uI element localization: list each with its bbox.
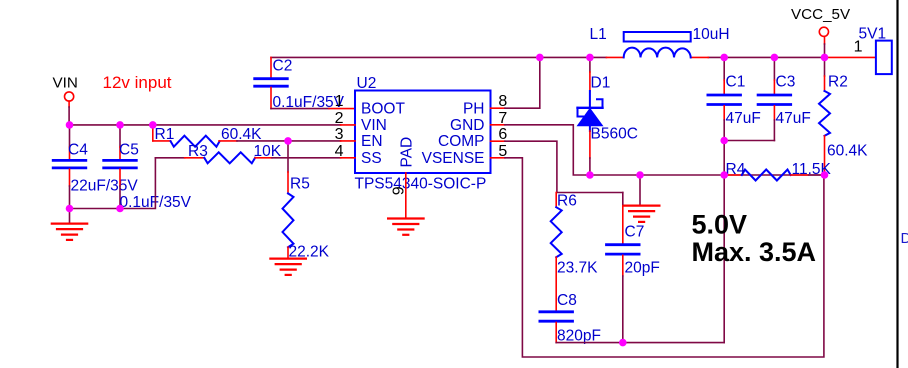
svg-text:EN: EN — [361, 133, 383, 150]
svg-text:C3: C3 — [776, 74, 796, 91]
svg-text:VSENSE: VSENSE — [422, 150, 485, 167]
svg-text:R3: R3 — [188, 143, 208, 160]
node C5 bottom — [116, 205, 124, 213]
node VIN/C4 — [66, 121, 74, 129]
wire EN node vertical to R5 — [287, 141, 289, 172]
node EN — [284, 137, 292, 145]
wire VIN rail to U2 pin2 — [69, 124, 341, 126]
wire red lead L1 left — [606, 56, 623, 58]
capacitor C2 — [270, 57, 272, 77]
svg-text:C1: C1 — [726, 74, 746, 91]
junction nodes — [66, 54, 829, 347]
ground below U2 PAD — [388, 219, 424, 235]
wire C2 to BOOT pin — [271, 108, 329, 110]
svg-text:C7: C7 — [625, 224, 645, 241]
wire input gnd bus — [70, 158, 156, 209]
capacitor C4 — [69, 125, 71, 147]
svg-text:C5: C5 — [119, 142, 139, 159]
wire compensation gnd line — [556, 342, 724, 344]
capacitor C5 — [119, 125, 121, 147]
pin PH stub — [491, 107, 505, 109]
connector 5V1 — [876, 41, 892, 75]
svg-text:C8: C8 — [557, 292, 577, 309]
wire red lead L1 right — [691, 56, 709, 58]
resistor R2 — [824, 57, 826, 76]
svg-text:SS: SS — [361, 150, 382, 167]
svg-text:10K: 10K — [254, 143, 282, 160]
node R1 tap — [149, 121, 157, 129]
svg-text:9: 9 — [391, 186, 408, 195]
svg-text:5V1: 5V1 — [859, 26, 887, 43]
node D1 anode — [586, 171, 594, 179]
node D1 top — [586, 54, 594, 62]
pin EN stub — [341, 140, 355, 142]
ground below R5 — [270, 259, 306, 275]
svg-text:5.0V: 5.0V — [692, 210, 748, 240]
pin VIN stub — [341, 124, 355, 126]
wire top rail VCC net L1 to R2 — [708, 56, 824, 58]
resistor R4 — [724, 174, 742, 176]
svg-text:PAD: PAD — [399, 137, 416, 168]
svg-text:20pF: 20pF — [625, 260, 660, 277]
svg-text:C4: C4 — [68, 142, 88, 159]
node FB divider — [821, 171, 829, 179]
node C3 top — [771, 54, 779, 62]
pin GND stub — [491, 124, 505, 126]
wire C1 C3 bottoms — [724, 140, 774, 142]
svg-text:1: 1 — [854, 39, 863, 56]
svg-text:L1: L1 — [590, 26, 607, 43]
node gnd branch — [636, 171, 644, 179]
svg-text:COMP: COMP — [438, 133, 485, 150]
sheet border right edge — [896, 0, 898, 368]
wire red 5V1 connector feed — [825, 56, 876, 58]
node C1 top — [720, 54, 728, 62]
wire top rail PH net C2 to L1 — [271, 56, 606, 58]
svg-text:12v input: 12v input — [103, 73, 172, 92]
capacitor C8 — [540, 310, 573, 313]
svg-text:60.4K: 60.4K — [827, 143, 868, 160]
resistor R5 — [287, 172, 289, 193]
ground on power gnd rail — [639, 175, 641, 206]
wire PH to top rail — [505, 57, 540, 108]
svg-text:R4: R4 — [726, 161, 746, 178]
svg-text:D: D — [901, 230, 908, 247]
svg-text:R1: R1 — [155, 126, 175, 143]
resistor R1 — [152, 125, 154, 141]
node C1 bottom — [720, 137, 728, 145]
svg-text:PH: PH — [463, 100, 485, 117]
svg-text:BOOT: BOOT — [361, 100, 405, 117]
svg-text:22uF/35V: 22uF/35V — [71, 178, 139, 195]
wire C1 bottom to gnd rail and down to bottom gnd line — [723, 141, 725, 343]
VIN terminal — [65, 92, 74, 101]
VCC_5V terminal — [824, 36, 826, 44]
node C7 bottom — [619, 339, 627, 347]
svg-text:TPS54340-SOIC-P: TPS54340-SOIC-P — [355, 176, 487, 193]
svg-text:U2: U2 — [357, 75, 377, 92]
svg-text:Max. 3.5A: Max. 3.5A — [692, 237, 817, 267]
svg-text:C2: C2 — [273, 58, 293, 75]
diode D1 B560C — [589, 57, 591, 72]
wire GND pin to ground rail — [505, 125, 825, 175]
svg-text:R2: R2 — [828, 74, 848, 91]
svg-text:47uF: 47uF — [776, 110, 811, 127]
inductor L1 — [624, 32, 691, 42]
svg-text:VCC_5V: VCC_5V — [791, 6, 851, 23]
pin VSENSE stub — [491, 157, 505, 159]
resistor R3 — [155, 157, 184, 159]
svg-text:R5: R5 — [290, 176, 310, 193]
capacitor C1 — [723, 57, 725, 80]
node C4 bottom — [66, 205, 74, 213]
svg-text:R6: R6 — [557, 193, 577, 210]
svg-text:GND: GND — [450, 117, 484, 134]
node C5 top — [116, 121, 124, 129]
svg-text:B560C: B560C — [591, 126, 638, 143]
svg-text:1: 1 — [335, 93, 344, 110]
capacitor C7 — [622, 193, 624, 206]
pin COMP stub — [491, 140, 505, 142]
svg-text:D1: D1 — [591, 75, 611, 92]
svg-text:47uF: 47uF — [726, 110, 761, 127]
wire COMP to R6/C7 — [505, 141, 623, 192]
node VCC — [821, 54, 829, 62]
svg-text:10uH: 10uH — [693, 26, 730, 43]
capacitor C3 — [773, 57, 775, 80]
wire VSENSE loop — [505, 158, 824, 357]
svg-text:VIN: VIN — [361, 117, 387, 134]
op-amp U2 TPS54340 box — [355, 91, 491, 174]
svg-text:60.4K: 60.4K — [221, 126, 262, 143]
ground below C4 — [69, 209, 71, 224]
resistor R6 — [555, 193, 557, 208]
node PH rail — [536, 54, 544, 62]
svg-text:23.7K: 23.7K — [557, 260, 598, 277]
pin SS stub — [341, 157, 355, 159]
svg-text:VIN: VIN — [53, 75, 78, 92]
pad pin 9 stub — [405, 173, 407, 219]
node gnd rail cross — [720, 171, 728, 179]
